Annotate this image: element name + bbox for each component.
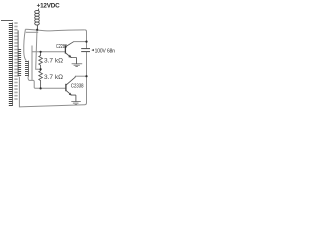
svg-text:+12VDC: +12VDC [37,2,60,9]
svg-text:100V 68n: 100V 68n [95,48,116,54]
svg-text:3.7 kΩ: 3.7 kΩ [44,74,63,81]
svg-text:3.7 kΩ: 3.7 kΩ [44,58,63,65]
svg-text:C2280: C2280 [56,43,67,49]
svg-text:C2338: C2338 [71,83,84,90]
